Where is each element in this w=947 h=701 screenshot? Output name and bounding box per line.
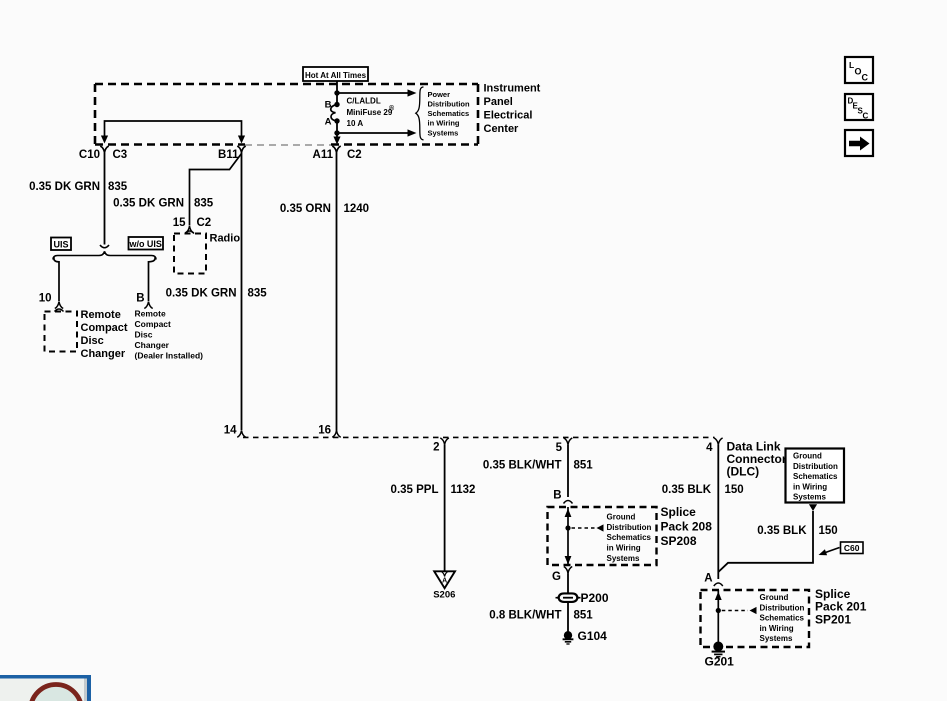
- node splice SP201: [716, 608, 721, 613]
- wire 835 DK GRN from B11 to 14: [166, 153, 268, 431]
- svg-text:Splice: Splice: [661, 505, 697, 519]
- svg-text:B: B: [325, 100, 332, 111]
- svg-text:0.35 BLK: 0.35 BLK: [757, 525, 807, 537]
- wire internal horizontal to C3 and B11: [105, 121, 242, 137]
- wire 851 0.8 BLK/WHT: [489, 602, 593, 632]
- ground G201: [705, 642, 735, 669]
- svg-text:G: G: [552, 571, 561, 583]
- svg-text:®: ®: [389, 105, 395, 113]
- svg-text:150: 150: [725, 484, 744, 496]
- ref arrow Ground Distribution SP201: [722, 593, 805, 643]
- svg-text:Schematics: Schematics: [793, 472, 838, 481]
- svg-text:UIS: UIS: [53, 240, 68, 250]
- svg-text:A11: A11: [313, 149, 334, 161]
- svg-text:1132: 1132: [451, 484, 476, 496]
- svg-text:B: B: [553, 490, 561, 502]
- svg-text:16: 16: [318, 425, 331, 437]
- arrow up SP201: [715, 592, 722, 601]
- svg-text:Ground: Ground: [793, 452, 822, 461]
- svg-text:C3: C3: [113, 149, 128, 161]
- svg-text:B: B: [136, 293, 144, 305]
- svg-text:Electrical: Electrical: [484, 110, 533, 122]
- button DESC: [845, 94, 873, 121]
- svg-text:A: A: [442, 578, 447, 585]
- svg-text:Systems: Systems: [428, 128, 459, 137]
- svg-text:A: A: [704, 573, 712, 585]
- svg-text:Panel: Panel: [484, 96, 513, 108]
- svg-text:in Wiring: in Wiring: [428, 119, 460, 128]
- svg-text:C2: C2: [197, 217, 212, 229]
- ref arrow Ground Distribution SP208: [572, 513, 652, 563]
- svg-text:0.8 BLK/WHT: 0.8 BLK/WHT: [489, 610, 561, 622]
- node junction bottom: [334, 130, 339, 135]
- arrow down SP208: [565, 556, 572, 565]
- svg-text:in Wiring: in Wiring: [607, 544, 641, 553]
- box Radio (dashed): [174, 234, 206, 274]
- svg-text:G104: G104: [578, 629, 608, 643]
- svg-text:Disc: Disc: [81, 335, 104, 347]
- svg-text:P200: P200: [581, 591, 609, 605]
- svg-text:Ground: Ground: [760, 593, 789, 602]
- options brace: [53, 251, 156, 259]
- node junction top: [334, 90, 339, 95]
- svg-text:2: 2: [433, 442, 439, 454]
- label Remote Compact Disc Changer: [81, 309, 128, 360]
- connector 15/C2 fork: [173, 217, 212, 233]
- wire arrow into B11: [238, 136, 245, 144]
- svg-text:Schematics: Schematics: [428, 109, 470, 118]
- svg-text:Schematics: Schematics: [607, 533, 652, 542]
- label Data Link Connector (DLC): [727, 440, 787, 479]
- svg-text:Remote: Remote: [135, 309, 166, 319]
- svg-text:O: O: [855, 67, 862, 77]
- label Splice Pack 201: [815, 587, 867, 626]
- svg-text:Schematics: Schematics: [760, 614, 805, 623]
- svg-text:B11: B11: [218, 149, 239, 161]
- ref Power Distribution Schematics (brace + text): [416, 87, 470, 140]
- wire arrow down to A11: [333, 137, 340, 145]
- svg-text:10: 10: [39, 293, 52, 305]
- svg-text:Distribution: Distribution: [607, 523, 652, 532]
- wire arrow into C3: [101, 136, 108, 144]
- svg-text:Systems: Systems: [793, 493, 826, 502]
- wire radio branch from B11: [113, 154, 241, 226]
- connector B11 fork: [218, 146, 246, 161]
- label UIS: [51, 238, 71, 251]
- svg-text:Systems: Systems: [760, 634, 793, 643]
- svg-text:C/LALDL: C/LALDL: [347, 97, 381, 106]
- wire 150 BLK branch to C60: [718, 511, 837, 572]
- svg-text:(DLC): (DLC): [727, 465, 760, 479]
- svg-text:0.35 ORN: 0.35 ORN: [280, 203, 331, 215]
- svg-text:4: 4: [706, 442, 713, 454]
- wire data link connector harness (dashed): [243, 436, 715, 438]
- box Instrument Panel Electrical Center (dashed): [95, 84, 478, 145]
- wire 835 DK GRN from C3: [29, 153, 128, 245]
- label Splice Pack 208: [661, 505, 713, 548]
- connector 5 fork: [556, 438, 573, 454]
- wire arrow to power distribution (bottom): [337, 129, 417, 136]
- svg-text:S206: S206: [433, 590, 455, 601]
- connector arc into CD changer: [55, 309, 64, 312]
- box Ground Distribution Schematics (solid): [786, 449, 845, 503]
- connector 16 fork: [318, 425, 340, 438]
- fuse MiniFuse 29 10A: [325, 97, 395, 129]
- terminal G fork: [552, 567, 572, 584]
- svg-text:MiniFuse 29: MiniFuse 29: [347, 108, 393, 117]
- svg-text:835: 835: [194, 198, 214, 210]
- svg-text:Distribution: Distribution: [428, 100, 470, 109]
- svg-text:C: C: [863, 112, 869, 121]
- svg-text:851: 851: [574, 610, 594, 622]
- svg-text:L: L: [849, 60, 854, 70]
- thumbnail corner graphic: [0, 675, 91, 701]
- wire 1132 PPL: [391, 444, 476, 570]
- svg-text:Systems: Systems: [607, 554, 640, 563]
- label Instrument Panel Electrical Center: [484, 83, 541, 136]
- button next-arrow: [845, 130, 873, 156]
- svg-text:0.35 DK GRN: 0.35 DK GRN: [166, 288, 237, 300]
- svg-text:0.35 BLK: 0.35 BLK: [662, 484, 712, 496]
- svg-text:Changer: Changer: [135, 340, 170, 350]
- svg-text:0.35 DK GRN: 0.35 DK GRN: [113, 198, 184, 210]
- svg-text:(Dealer Installed): (Dealer Installed): [135, 351, 204, 361]
- svg-text:Power: Power: [428, 90, 451, 99]
- svg-text:0.35 PPL: 0.35 PPL: [391, 484, 439, 496]
- wire arrow to power distribution (top): [337, 89, 417, 96]
- svg-text:w/o UIS: w/o UIS: [128, 239, 162, 249]
- svg-text:15: 15: [173, 217, 186, 229]
- wire end cup: [100, 245, 109, 248]
- svg-text:5: 5: [556, 442, 563, 454]
- svg-text:0.35 DK GRN: 0.35 DK GRN: [29, 181, 100, 193]
- terminal A of SP201: [704, 573, 723, 587]
- label w/o UIS: [128, 237, 163, 250]
- node splice SP208: [565, 525, 570, 530]
- wire UIS branch: [39, 257, 63, 309]
- wire hot feed vertical: [336, 81, 338, 103]
- svg-text:Center: Center: [484, 123, 520, 135]
- connector C10/C3 fork: [79, 146, 127, 161]
- svg-text:10 A: 10 A: [347, 119, 364, 128]
- svg-text:Pack 208: Pack 208: [661, 520, 713, 534]
- terminal B of SP208: [553, 490, 572, 504]
- connector arc into Radio: [185, 231, 194, 234]
- svg-text:Compact: Compact: [81, 322, 128, 334]
- svg-text:G201: G201: [705, 655, 735, 669]
- ground G104: [563, 629, 608, 644]
- label C60: [819, 542, 864, 555]
- box Splice Pack SP208 (dashed): [548, 507, 657, 565]
- svg-text:Changer: Changer: [81, 348, 126, 360]
- svg-text:C10: C10: [79, 149, 100, 161]
- svg-text:Distribution: Distribution: [793, 462, 838, 471]
- svg-text:C2: C2: [347, 149, 362, 161]
- svg-text:1240: 1240: [344, 203, 370, 215]
- box Splice Pack SP201 (dashed): [701, 590, 810, 647]
- wire G to P200: [567, 574, 569, 595]
- box Remote Compact Disc Changer (dashed): [45, 312, 78, 352]
- svg-text:851: 851: [574, 460, 594, 472]
- svg-text:in Wiring: in Wiring: [793, 482, 827, 491]
- wire inside SP208: [567, 507, 569, 565]
- svg-text:Disc: Disc: [135, 330, 153, 340]
- svg-text:Ground: Ground: [607, 513, 636, 522]
- arrow up SP208: [565, 509, 572, 518]
- wire 851 BLK/WHT: [483, 444, 593, 497]
- label Remote Compact Disc Changer (Dealer Installed): [135, 309, 204, 361]
- svg-text:in Wiring: in Wiring: [760, 624, 794, 633]
- button LOC: [845, 57, 873, 83]
- grommet P200: [556, 591, 609, 605]
- svg-text:Compact: Compact: [135, 319, 172, 329]
- svg-text:14: 14: [224, 425, 237, 437]
- svg-text:150: 150: [819, 525, 838, 537]
- svg-text:Distribution: Distribution: [760, 603, 805, 612]
- svg-text:Remote: Remote: [81, 309, 121, 321]
- connector 4 fork: [706, 438, 723, 454]
- svg-text:C60: C60: [844, 543, 860, 553]
- arrow down from ground distribution box: [809, 504, 817, 511]
- svg-text:C: C: [862, 73, 869, 83]
- svg-text:Radio: Radio: [210, 233, 241, 245]
- wire w/o UIS branch: [136, 257, 155, 309]
- connector 14 fork: [224, 425, 246, 438]
- svg-text:Instrument: Instrument: [484, 83, 541, 95]
- wire 150 BLK from 4: [662, 444, 744, 579]
- splice S206 triangle: [433, 571, 455, 600]
- svg-text:835: 835: [108, 181, 128, 193]
- svg-text:A: A: [325, 117, 332, 128]
- wire below fuse: [336, 121, 338, 137]
- connector A11/C2 fork: [313, 146, 362, 161]
- connector 2 fork: [433, 438, 449, 454]
- svg-text:Hot At All Times: Hot At All Times: [305, 71, 367, 80]
- wire inside SP201: [717, 590, 719, 646]
- svg-text:835: 835: [248, 288, 268, 300]
- svg-text:SP208: SP208: [661, 534, 697, 548]
- label Hot At All Times: [303, 67, 368, 81]
- svg-text:SP201: SP201: [815, 612, 851, 626]
- wire 1240 ORN from A11 to 16: [280, 153, 369, 431]
- svg-text:0.35 BLK/WHT: 0.35 BLK/WHT: [483, 460, 562, 472]
